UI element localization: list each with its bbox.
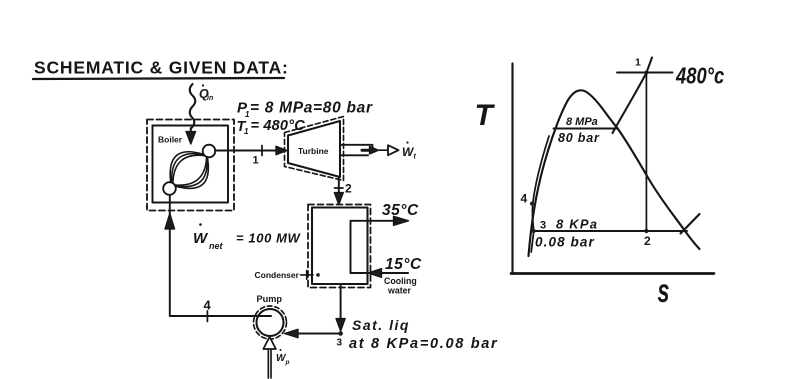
svg-text:SCHEMATIC & GIVEN DATA:: SCHEMATIC & GIVEN DATA: (34, 58, 289, 78)
svg-text:35°C: 35°C (382, 202, 419, 219)
title: SCHEMATIC & GIVEN DATA (33, 58, 289, 80)
label cooling water (384, 276, 417, 296)
svg-text:W: W (193, 230, 209, 247)
pump dashed circle (254, 306, 287, 339)
svg-text:net: net (209, 241, 224, 251)
svg-text:s: s (657, 272, 669, 309)
isobar 8kPa line (534, 230, 687, 232)
point 2 (644, 229, 648, 233)
svg-text:= 100 MW: = 100 MW (236, 231, 302, 246)
boiler coil (170, 152, 208, 189)
pipe 4: pump to boiler (165, 196, 271, 322)
svg-text:4: 4 (204, 298, 212, 313)
label Qin (199, 84, 213, 102)
boiler coil node top (203, 145, 216, 158)
boiler coil node bottom (163, 182, 176, 195)
heat input Qin squiggle arrow (186, 84, 196, 144)
Ts diagram T axis (511, 64, 513, 274)
svg-text:Cooling: Cooling (384, 276, 417, 286)
turbine work shaft (341, 145, 399, 156)
label Wp (276, 349, 290, 366)
boiler inner solid box (153, 126, 229, 203)
svg-text:80 bar: 80 bar (558, 131, 600, 145)
pipe 2: turbine to condenser (334, 178, 343, 205)
svg-text:1: 1 (253, 155, 259, 167)
boiler outer dashed box (147, 120, 234, 211)
svg-text:Turbine: Turbine (298, 146, 329, 156)
svg-text:8 MPa: 8 MPa (566, 116, 598, 128)
svg-text:15°C: 15°C (385, 256, 422, 273)
svg-text:Sat. liq: Sat. liq (352, 317, 410, 333)
svg-text:in: in (207, 95, 213, 102)
annotation P1 T1 (237, 100, 373, 137)
annotation Wnet = 100 MW (193, 223, 302, 251)
label Condenser with leader (255, 270, 320, 280)
svg-text:2: 2 (644, 234, 651, 248)
svg-text:0.08 bar: 0.08 bar (535, 235, 595, 250)
superheat curve to 1 (613, 58, 653, 134)
isobar upturn (681, 214, 700, 234)
vapor dome (529, 90, 700, 256)
line 1-2 (645, 73, 647, 232)
condenser solid box (312, 208, 368, 285)
condenser cooling pipe (351, 216, 409, 277)
svg-text:water: water (387, 286, 412, 296)
pipe 3: condenser to pump (285, 285, 346, 338)
480C line (617, 72, 673, 74)
pipe 1: boiler to turbine (215, 146, 287, 156)
Ts diagram s axis (511, 272, 714, 275)
condenser dashed box (308, 205, 371, 288)
point 4 (530, 202, 534, 206)
pump circle (257, 309, 284, 336)
compressed liquid line 3-4 (531, 136, 549, 252)
state 3 annotation (349, 317, 498, 352)
point 3 (532, 229, 536, 233)
svg-text:Boiler: Boiler (158, 135, 183, 145)
svg-text:= 480°C: = 480°C (251, 118, 306, 134)
isobar 8MPa line (554, 127, 619, 129)
svg-text:3: 3 (337, 338, 343, 349)
turbine body (288, 121, 340, 177)
svg-text:T: T (475, 99, 496, 132)
svg-text:at 8 KPa=0.08 bar: at 8 KPa=0.08 bar (349, 336, 498, 352)
svg-text:480°c: 480°c (675, 64, 725, 89)
svg-text:Condenser: Condenser (255, 270, 300, 280)
svg-text:p: p (285, 359, 290, 366)
svg-text:1: 1 (244, 127, 249, 136)
svg-text:3: 3 (540, 220, 546, 232)
svg-text:8 KPa: 8 KPa (556, 217, 598, 232)
svg-text:2: 2 (345, 182, 352, 196)
label Wt (402, 141, 417, 160)
svg-text:Pump: Pump (257, 294, 283, 304)
svg-text:1: 1 (635, 57, 641, 69)
turbine dashed outline (285, 117, 344, 181)
svg-text:4: 4 (521, 192, 528, 206)
point 1 (645, 71, 649, 75)
pump work Wp arrow (263, 337, 276, 378)
svg-text:= 8 MPa=80 bar: = 8 MPa=80 bar (250, 100, 373, 117)
